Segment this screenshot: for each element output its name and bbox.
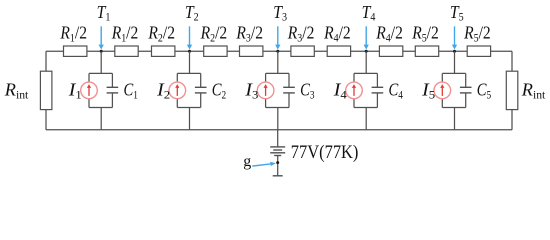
svg-text:C1: C1 xyxy=(124,80,139,102)
resistor R1/2 (box 1) xyxy=(60,23,87,57)
capacitor C4 xyxy=(372,73,384,107)
svg-text:T1: T1 xyxy=(97,2,111,24)
wire top rail xyxy=(46,50,512,52)
label C1 xyxy=(124,80,139,102)
svg-text:C3: C3 xyxy=(300,80,315,102)
resistor R4/2 (box 8) xyxy=(375,23,402,57)
junction dot T3 xyxy=(276,50,279,53)
wire branch 1 top bar xyxy=(89,72,112,74)
svg-text:C4: C4 xyxy=(389,80,404,102)
wire right vertical xyxy=(511,51,513,130)
svg-text:R2/2: R2/2 xyxy=(200,23,227,45)
resistor R_int (left) xyxy=(4,71,52,109)
resistor R4/2 (box 7) xyxy=(323,23,350,57)
wire node T5 to branch top bar xyxy=(454,51,456,73)
label C5 xyxy=(477,80,492,102)
battery 77V(77K) xyxy=(270,147,285,156)
label I3 xyxy=(244,80,258,102)
label I1 xyxy=(68,80,82,102)
svg-text:I1: I1 xyxy=(68,80,82,102)
resistor R5/2 (box 10) xyxy=(463,23,490,57)
current source I3 xyxy=(257,73,274,107)
svg-text:I5: I5 xyxy=(421,80,435,102)
junction dot T1 xyxy=(100,50,103,53)
svg-text:Rint: Rint xyxy=(4,80,29,102)
resistor R2/2 (box 3) xyxy=(148,23,175,57)
wire branch 5 top bar xyxy=(442,72,465,74)
wire branch 2 bottom bar xyxy=(177,107,200,109)
wire node T4 to branch top bar xyxy=(365,51,367,73)
svg-text:R3/2: R3/2 xyxy=(236,23,263,45)
svg-text:R2/2: R2/2 xyxy=(148,23,175,45)
svg-text:R3/2: R3/2 xyxy=(287,23,314,45)
label C3 xyxy=(300,80,315,102)
node T3 label xyxy=(273,2,287,24)
junction dot T2 xyxy=(188,50,191,53)
wire node T1 to branch top bar xyxy=(100,51,102,73)
junction dot T4 xyxy=(365,50,368,53)
label I2 xyxy=(156,80,170,102)
label C2 xyxy=(212,80,227,102)
arrow to node T2 xyxy=(187,26,192,49)
arrow to node T3 xyxy=(275,26,280,49)
label I4 xyxy=(333,80,347,102)
capacitor C5 xyxy=(460,73,472,107)
capacitor C2 xyxy=(195,73,207,107)
wire bottom rail xyxy=(46,129,512,131)
wire node T2 to branch top bar xyxy=(189,51,191,73)
svg-text:R1/2: R1/2 xyxy=(111,23,138,45)
svg-text:Rint: Rint xyxy=(521,80,546,102)
current source I2 xyxy=(169,73,186,107)
node T2 label xyxy=(185,2,199,24)
arrow to node T5 xyxy=(452,26,457,49)
resistor R1/2 (box 2) xyxy=(111,23,138,57)
svg-text:T4: T4 xyxy=(362,2,376,24)
svg-text:R1/2: R1/2 xyxy=(60,23,87,45)
label I5 xyxy=(421,80,435,102)
current source I4 xyxy=(346,73,363,107)
svg-text:T2: T2 xyxy=(185,2,199,24)
svg-text:R4/2: R4/2 xyxy=(323,23,350,45)
current source I1 xyxy=(81,73,98,107)
svg-text:77V(77K): 77V(77K) xyxy=(291,143,359,163)
label C4 xyxy=(389,80,404,102)
node T5 label xyxy=(450,2,464,24)
wire left vertical xyxy=(45,51,47,130)
wire branch 5 bottom bar xyxy=(442,107,465,109)
wire branch 4 bottom bar to bottom rail xyxy=(365,108,367,130)
svg-text:T5: T5 xyxy=(450,2,464,24)
svg-text:g: g xyxy=(243,153,251,170)
ground terminal bar xyxy=(273,175,283,177)
wire branch 3 top bar xyxy=(266,72,289,74)
wire branch 1 bottom bar to bottom rail xyxy=(100,108,102,130)
svg-text:T3: T3 xyxy=(273,2,287,24)
node T4 label xyxy=(362,2,376,24)
resistor R2/2 (box 4) xyxy=(200,23,227,57)
wire battery to ground terminal xyxy=(277,156,279,176)
current source I5 xyxy=(434,73,451,107)
wire branch 4 top bar xyxy=(354,72,377,74)
svg-text:R5/2: R5/2 xyxy=(463,23,490,45)
wire branch 3 bottom bar to bottom rail xyxy=(277,108,279,130)
wire node T3 to branch top bar xyxy=(277,51,279,73)
wire branch 1 bottom bar xyxy=(89,107,112,109)
svg-text:R5/2: R5/2 xyxy=(411,23,438,45)
wire branch 3 bottom bar xyxy=(266,107,289,109)
wire branch 2 top bar xyxy=(177,72,200,74)
resistor R3/2 (box 5) xyxy=(236,23,263,57)
arrow to node T1 xyxy=(99,26,104,49)
svg-text:C5: C5 xyxy=(477,80,492,102)
resistor R3/2 (box 6) xyxy=(287,23,314,57)
resistor R5/2 (box 9) xyxy=(411,23,438,57)
svg-text:I3: I3 xyxy=(244,80,258,102)
capacitor C3 xyxy=(283,73,295,107)
arrow to node T4 xyxy=(364,26,369,49)
capacitor C1 xyxy=(107,73,119,107)
wire branch 4 bottom bar xyxy=(354,107,377,109)
wire branch 5 bottom bar to bottom rail xyxy=(454,108,456,130)
wire branch 2 bottom bar to bottom rail xyxy=(189,108,191,130)
arrow g to node xyxy=(252,162,276,166)
svg-text:I2: I2 xyxy=(156,80,170,102)
resistor R_int (right) xyxy=(506,71,546,109)
svg-text:R4/2: R4/2 xyxy=(375,23,402,45)
node T1 label xyxy=(97,2,111,24)
node g dot xyxy=(276,161,279,164)
wire bottom rail to battery xyxy=(277,130,279,147)
junction dot T5 xyxy=(453,50,456,53)
svg-text:C2: C2 xyxy=(212,80,227,102)
svg-text:I4: I4 xyxy=(333,80,347,102)
